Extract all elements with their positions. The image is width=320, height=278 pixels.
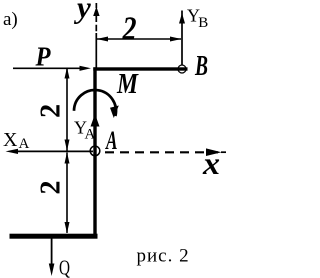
pin support circle at B [178,65,186,73]
svg-text:M: M [116,69,139,100]
dimension line 2 (top, horizontal) [97,38,181,40]
svg-text:2: 2 [35,181,66,195]
dimension line 2 (lower left, vertical) [66,153,68,233]
force Y_A (up arrowhead on bar) [91,114,100,127]
svg-text:X: X [3,129,18,151]
y axis [95,16,97,68]
dimension line 2 (upper left, vertical) [66,68,68,151]
svg-text:A: A [105,126,118,155]
x axis (dashed) with arrowhead [105,151,218,153]
bottom bar (beam at Q) [10,234,98,239]
svg-text:а): а) [3,9,18,30]
svg-text:B: B [194,51,208,82]
svg-text:Q: Q [59,256,70,278]
force Q (line + down arrowhead) [51,239,53,269]
force P (line + right arrowhead) [13,67,80,69]
force X_A (line + left arrowhead) [16,150,93,152]
svg-text:2: 2 [36,104,67,118]
force Y_B (line + up arrowhead) [181,11,183,66]
vertical bar (main beam) [93,67,96,238]
moment M arc with arrowhead [74,90,116,116]
svg-text:2: 2 [122,11,137,48]
svg-text:B: B [198,15,208,31]
svg-text:x: x [202,145,220,181]
pin circle at A [90,146,100,156]
svg-text:P: P [35,42,51,72]
svg-text:рис. 2: рис. 2 [137,246,190,267]
top bar (beam corner to B) [93,67,187,70]
svg-text:A: A [19,136,30,152]
svg-text:A: A [85,127,96,143]
